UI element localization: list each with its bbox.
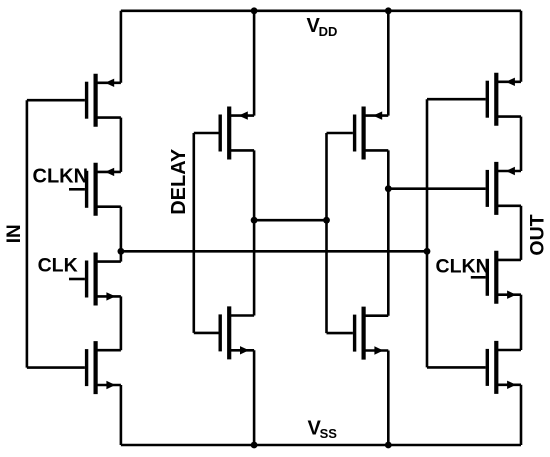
svg-text:CLKN: CLKN bbox=[436, 256, 490, 278]
svg-text:CLKN: CLKN bbox=[33, 166, 89, 188]
svg-text:DELAY: DELAY bbox=[168, 148, 190, 215]
svg-text:OUT: OUT bbox=[527, 214, 549, 255]
svg-text:IN: IN bbox=[4, 224, 25, 243]
svg-text:CLK: CLK bbox=[38, 255, 78, 277]
